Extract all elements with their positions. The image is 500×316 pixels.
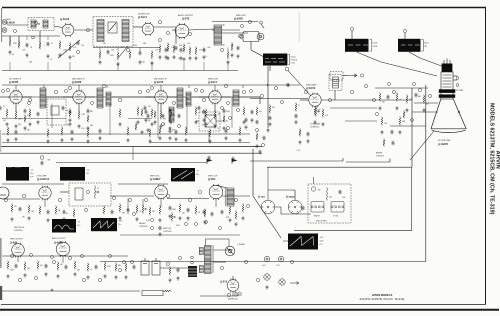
wire T1 to V2 bbox=[54, 26, 63, 28]
svg-text:15K: 15K bbox=[72, 56, 76, 58]
ground G35 bbox=[144, 118, 147, 122]
callout ring 48 bbox=[82, 278, 85, 281]
tube V9 video amp bbox=[309, 93, 321, 108]
stage 4 plate wire bbox=[221, 96, 231, 98]
diagonal B1 to video amp bbox=[288, 71, 311, 97]
wire HV lead to CRT bbox=[425, 85, 427, 262]
capacitor C4 bbox=[107, 50, 110, 55]
resistor R36 bbox=[137, 107, 139, 116]
callout ring 46 bbox=[52, 260, 55, 263]
capacitor C36 bbox=[37, 112, 40, 117]
scope waveform W3 bbox=[171, 168, 195, 181]
svg-text:1M: 1M bbox=[148, 120, 151, 122]
AC arrow bbox=[290, 282, 299, 285]
svg-text:.005: .005 bbox=[31, 211, 34, 213]
svg-text:Ⓐ 6S4: Ⓐ 6S4 bbox=[208, 177, 216, 181]
svg-text:3.9K: 3.9K bbox=[29, 61, 33, 63]
ground G56 bbox=[178, 216, 181, 220]
resistor R8 bbox=[129, 51, 131, 60]
sound IF transformer T2 box bbox=[93, 17, 133, 47]
svg-text:VERT LIN: VERT LIN bbox=[163, 228, 172, 230]
wire det area bbox=[216, 120, 228, 122]
capacitor C43 bbox=[392, 141, 395, 146]
svg-text:1K: 1K bbox=[30, 47, 33, 49]
resistor R46 bbox=[403, 111, 405, 119]
IF can Z2 bbox=[97, 88, 103, 108]
vert lin pot R67 wiper arrow bbox=[173, 216, 175, 218]
capacitor C80 bbox=[99, 129, 102, 134]
svg-text:Ⓐ 12AU7A: Ⓐ 12AU7A bbox=[37, 177, 49, 181]
tube V16 audio out bbox=[56, 241, 70, 257]
stage 3 plate wire bbox=[167, 96, 177, 98]
ground G3 bbox=[46, 54, 49, 58]
terminal ring N3 bbox=[77, 51, 80, 54]
stage 4 resistor Rc bbox=[223, 115, 225, 123]
filter capacitor FC2 bbox=[152, 258, 160, 275]
tube 6CB6 stage 1 bbox=[10, 90, 22, 105]
capacitor C82 bbox=[225, 129, 228, 134]
capacitor C32 bbox=[269, 116, 272, 121]
ground G52 bbox=[62, 217, 65, 221]
height pot R66 body bbox=[142, 205, 144, 214]
resistor R75 bbox=[87, 263, 89, 272]
capacitor C7 bbox=[203, 48, 206, 53]
resistor R91 bbox=[189, 47, 191, 56]
stage 2 resistor Ra bbox=[69, 109, 71, 118]
row4 link wire bbox=[17, 256, 19, 262]
T5 side line R bbox=[212, 245, 214, 273]
row3 top bus bbox=[2, 183, 64, 185]
svg-text:10K: 10K bbox=[182, 212, 186, 214]
svg-text:.01: .01 bbox=[90, 269, 92, 271]
tube 6AU6 stage 3 bbox=[155, 90, 167, 105]
width box bbox=[308, 184, 351, 223]
interlock plug P1 bbox=[264, 274, 270, 280]
wire speaker down bbox=[250, 42, 252, 51]
callout ring 18 bbox=[202, 98, 205, 101]
ring N16 bbox=[411, 119, 414, 122]
stub r1low-1 bbox=[9, 62, 11, 71]
peaking coil box bbox=[329, 75, 342, 91]
ground G13 bbox=[202, 55, 205, 59]
ground G74 bbox=[73, 272, 76, 276]
scope waveform W1 bbox=[6, 167, 29, 181]
CRT pin ring 2 bbox=[456, 84, 459, 87]
svg-text:Ⓐ 6T8: Ⓐ 6T8 bbox=[182, 16, 190, 20]
svg-text:1K: 1K bbox=[217, 128, 220, 130]
capacitor C78 bbox=[15, 130, 18, 135]
callout ring 34 bbox=[84, 208, 87, 211]
B2 top tick bbox=[351, 31, 353, 39]
resistor R58 bbox=[195, 206, 197, 215]
tube V11 vert osc bbox=[155, 185, 168, 200]
resistor R93 bbox=[154, 111, 156, 119]
capacitor C95 bbox=[307, 132, 310, 137]
stage 1 grid wire bbox=[0, 96, 10, 98]
ground G39c bbox=[68, 118, 71, 122]
CRT faceplate bbox=[431, 129, 466, 133]
video amp grid wire bbox=[300, 99, 309, 101]
wire plate link 4 bbox=[239, 96, 260, 98]
B3 top tick bbox=[404, 33, 406, 39]
ring N56 bbox=[221, 107, 224, 110]
resistor R68 bbox=[204, 209, 206, 218]
stub r1low-3 bbox=[69, 62, 71, 71]
ground G96 bbox=[158, 55, 161, 59]
svg-text:Ⓐ150MA: Ⓐ150MA bbox=[237, 242, 245, 246]
wire to V4 grid bbox=[172, 29, 175, 31]
tube V15 vert out bbox=[12, 243, 25, 258]
capacitor C75 bbox=[221, 210, 224, 215]
CRT yoke band 2 bbox=[439, 94, 455, 97]
CRT funnel bbox=[431, 99, 466, 129]
phono jack J2 bbox=[278, 256, 284, 262]
ground G51 bbox=[27, 216, 30, 220]
wire plate link 3 bbox=[192, 96, 209, 98]
AGC box bbox=[47, 99, 66, 125]
ground G107 bbox=[172, 55, 175, 59]
stage 1 capacitor Cb bbox=[0, 106, 2, 111]
svg-text:35>: 35> bbox=[86, 172, 89, 175]
ground G78 bbox=[265, 285, 268, 289]
capacitor C1 bbox=[26, 43, 29, 48]
wire T5 secondary bbox=[214, 261, 227, 263]
stage 1 pin ring a bbox=[2, 90, 5, 93]
ground G41 bbox=[395, 106, 398, 110]
svg-text:100: 100 bbox=[40, 265, 43, 267]
wire rect drop bbox=[232, 276, 234, 280]
speaker LS1 bbox=[240, 32, 264, 42]
antenna terminal X1 bbox=[2, 20, 7, 25]
wire row3 bus b bbox=[110, 195, 154, 197]
wire B+ bus bbox=[100, 261, 426, 263]
callout ring 54 bbox=[220, 266, 223, 269]
wire V3 to audio bbox=[154, 26, 176, 28]
wire video out bbox=[321, 99, 412, 101]
resistor R40 bbox=[379, 93, 381, 102]
IF can Z4 bbox=[233, 90, 239, 106]
tube V2 sound IF amp bbox=[62, 23, 74, 37]
callout ring 15 bbox=[138, 90, 141, 93]
resistor R92 bbox=[231, 43, 233, 52]
wire row4 bottom bbox=[200, 295, 238, 297]
ground G108 bbox=[179, 56, 182, 60]
callout ring 52 bbox=[166, 262, 169, 265]
ground G33 bbox=[268, 122, 271, 126]
stage 2 pin ring a bbox=[65, 90, 68, 93]
svg-text:Ⓐ 6AL5: Ⓐ 6AL5 bbox=[138, 15, 148, 19]
drop wire m4 bbox=[109, 104, 111, 136]
wire V4 plate to T3 bbox=[189, 29, 214, 30]
ground G105 bbox=[174, 137, 177, 141]
svg-text:Ⓐ 12BH7: Ⓐ 12BH7 bbox=[150, 177, 161, 181]
callout ring 55 bbox=[244, 260, 247, 263]
drop wire r1-5 bbox=[99, 48, 101, 52]
wire horiz network bbox=[275, 207, 311, 214]
callout ring 39 bbox=[188, 198, 191, 201]
wire bus A bbox=[2, 35, 60, 37]
tube V4 audio output bbox=[175, 23, 189, 39]
svg-text:.01: .01 bbox=[121, 47, 123, 49]
terminal ring N13 bbox=[388, 83, 391, 86]
wire vert feed 1 bbox=[252, 149, 254, 196]
capacitor C88 bbox=[178, 114, 181, 119]
svg-text:Ⓐ 6BJ6: Ⓐ 6BJ6 bbox=[6, 21, 15, 25]
svg-text:47: 47 bbox=[51, 43, 53, 45]
T1 primary coil bbox=[31, 20, 36, 28]
svg-text:6213TM, 6215CB, CM (Ch. TE-319: 6213TM, 6215CB, CM (Ch. TE-319) bbox=[360, 297, 405, 301]
stage can feed 2 bbox=[106, 85, 108, 88]
stage 2 cathode drop bbox=[78, 103, 80, 112]
callout ring 40 bbox=[198, 190, 201, 193]
ground G45 bbox=[398, 130, 401, 134]
wire plate link 1 bbox=[46, 96, 73, 98]
ground G102 bbox=[153, 120, 156, 124]
ground G59 bbox=[72, 220, 75, 224]
callout ring 37 bbox=[144, 198, 147, 201]
wire yoke feed bbox=[375, 87, 428, 89]
resistor R85 bbox=[127, 127, 129, 136]
stage feed 1 bbox=[15, 85, 17, 91]
ground G34 bbox=[136, 120, 139, 124]
resistor R51 bbox=[11, 204, 13, 213]
callout ring 32 bbox=[22, 194, 25, 197]
capacitor C76 bbox=[133, 265, 136, 270]
ring in hold box bbox=[87, 191, 90, 194]
callout ring 42 bbox=[246, 204, 249, 207]
resistor R39d bbox=[243, 107, 245, 116]
resistor R76 bbox=[104, 262, 106, 271]
stage 2 pin ring b bbox=[91, 102, 94, 105]
svg-text:.047: .047 bbox=[426, 103, 429, 105]
wire yoke to CRT bbox=[357, 52, 438, 76]
ground G62 bbox=[186, 216, 189, 220]
stage 3 ground Gb bbox=[159, 124, 162, 128]
svg-text:FOCUS: FOCUS bbox=[291, 60, 298, 62]
svg-text:HV: HV bbox=[318, 190, 321, 192]
wire row3 low bus bbox=[120, 234, 240, 236]
svg-text:Ⓐ 25: Ⓐ 25 bbox=[296, 149, 300, 152]
callout ring 16 bbox=[150, 86, 153, 89]
drop wire r1-3 bbox=[47, 37, 49, 41]
width coil L8 bbox=[311, 202, 324, 213]
callout ring 2 bbox=[86, 28, 89, 31]
wire rule drop a bbox=[132, 147, 134, 154]
stage 3 pin ring b bbox=[173, 102, 176, 105]
ring B2 top bbox=[350, 27, 353, 30]
ring N54 bbox=[162, 123, 165, 126]
svg-text:2.2M: 2.2M bbox=[107, 266, 111, 268]
svg-text:120: 120 bbox=[14, 206, 17, 208]
svg-text:470K: 470K bbox=[172, 209, 177, 211]
svg-text:500K: 500K bbox=[176, 225, 181, 227]
wire drop A1 bbox=[9, 36, 11, 40]
svg-text:C-07: C-07 bbox=[276, 265, 280, 267]
svg-text:.047: .047 bbox=[66, 124, 69, 126]
ring N31 bbox=[51, 256, 54, 259]
stage 1 ground Gc bbox=[23, 126, 26, 130]
callout ring 13 bbox=[102, 84, 105, 87]
resistor R71 bbox=[24, 262, 26, 271]
bus row1 low bbox=[2, 70, 238, 72]
svg-text:2.2M: 2.2M bbox=[133, 45, 137, 47]
svg-text:Ⓐ7: Ⓐ7 bbox=[196, 169, 199, 173]
stage 2 resistor Rc bbox=[87, 115, 89, 123]
callout ring 44 bbox=[18, 278, 21, 281]
svg-text:52-53: 52-53 bbox=[291, 57, 296, 59]
wire B1 drop long bbox=[267, 66, 269, 128]
stage feed 3 bbox=[160, 85, 162, 91]
callout ring 51 bbox=[130, 260, 133, 263]
ring N61 bbox=[191, 256, 194, 259]
ground G111 bbox=[255, 144, 258, 148]
ring N20 bbox=[151, 219, 154, 222]
capacitor C52 bbox=[232, 157, 235, 162]
svg-text:AUDIO OUTPUT: AUDIO OUTPUT bbox=[52, 237, 66, 240]
ground G37 bbox=[202, 118, 205, 122]
stage 4 ground Ga bbox=[204, 122, 207, 126]
row3 top bus b bbox=[118, 183, 168, 185]
svg-text:VERT OUTPUT: VERT OUTPUT bbox=[10, 239, 24, 241]
svg-text:PICTURE TUBE: PICTURE TUBE bbox=[438, 140, 451, 142]
callout ring 47 bbox=[68, 256, 71, 259]
svg-text:3.9K: 3.9K bbox=[122, 212, 126, 214]
callout ring 1 bbox=[34, 21, 37, 24]
drop wire m3 bbox=[231, 97, 233, 128]
tube V10b half at edge bbox=[0, 187, 9, 199]
resistor R9 bbox=[151, 51, 153, 60]
svg-text:.1: .1 bbox=[245, 208, 246, 210]
callout ring 21 bbox=[260, 94, 263, 97]
svg-text:55>: 55> bbox=[118, 223, 121, 226]
stage 1 pin ring b bbox=[28, 102, 31, 105]
capacitor C90 bbox=[245, 118, 248, 123]
svg-text:Ⓐ 5Y3: Ⓐ 5Y3 bbox=[220, 280, 228, 284]
callout ring 50 bbox=[118, 268, 121, 271]
ground G79 bbox=[124, 275, 127, 279]
resistor R47 bbox=[383, 139, 385, 147]
ground G4 bbox=[58, 53, 61, 57]
ground G104 bbox=[158, 136, 161, 140]
ground G39b bbox=[118, 122, 121, 126]
T1 secondary coil bbox=[43, 20, 48, 28]
stage 2 grid wire bbox=[63, 96, 73, 98]
svg-text:Ⓐ 6AV6: Ⓐ 6AV6 bbox=[234, 16, 244, 20]
svg-text:H LIN: H LIN bbox=[334, 216, 339, 218]
callout ring 14 bbox=[118, 98, 121, 101]
ground G54 bbox=[135, 217, 138, 221]
svg-text:6W: 6W bbox=[48, 160, 51, 162]
scan edge smudge bbox=[0, 238, 2, 268]
wire grid 1 bbox=[414, 102, 438, 104]
svg-text:6.8K: 6.8K bbox=[179, 45, 183, 47]
resistor R62 bbox=[73, 209, 75, 218]
mid plate bus long bbox=[8, 96, 260, 98]
resistor R4 bbox=[59, 41, 61, 50]
stage 4 resistor Rb bbox=[214, 111, 216, 120]
stage 2 resistor Rb bbox=[78, 111, 80, 120]
capacitor C81 bbox=[169, 129, 172, 134]
capacitor C77 bbox=[177, 268, 180, 273]
terminal ring N10 bbox=[256, 129, 259, 132]
resistor R84 bbox=[87, 129, 89, 138]
audio output transformer T3 bbox=[214, 25, 222, 45]
scope waveform W4 bbox=[52, 219, 76, 233]
wire T2 to V3 bbox=[133, 26, 142, 28]
svg-text:59-60: 59-60 bbox=[424, 43, 429, 45]
callout ring 5 bbox=[188, 32, 191, 35]
selenium rectifier SR1 bbox=[188, 266, 197, 277]
wire speaker to fuse block bbox=[251, 50, 264, 57]
resistor R64 bbox=[159, 206, 161, 215]
section divider upper rule bbox=[0, 146, 262, 148]
ground G39e bbox=[250, 118, 253, 122]
svg-text:470K: 470K bbox=[13, 43, 18, 45]
ground G94 bbox=[224, 136, 227, 140]
tube V14 hor out socket bbox=[288, 200, 302, 214]
stage can feed 4 bbox=[242, 85, 244, 88]
ring N57 bbox=[229, 117, 232, 120]
svg-text:CONTROL: CONTROL bbox=[139, 226, 148, 228]
resistor R63 bbox=[103, 206, 105, 215]
ring N62 bbox=[191, 261, 194, 264]
vertical output transformer T4 bbox=[227, 188, 234, 206]
IF can Z3 bbox=[177, 88, 183, 108]
capacitor C93 bbox=[147, 114, 150, 119]
ground G103 bbox=[169, 120, 172, 124]
L5 bracket bbox=[288, 55, 290, 65]
resistor R73 bbox=[57, 262, 59, 271]
stage 3 cathode drop bbox=[160, 103, 162, 112]
arrow connector symbol bbox=[347, 74, 357, 77]
svg-text:CONTROL: CONTROL bbox=[376, 156, 384, 158]
svg-text:4.7K: 4.7K bbox=[325, 115, 329, 117]
callout ring 9 bbox=[6, 88, 9, 91]
wire hv box top bbox=[313, 177, 315, 184]
ground G44 bbox=[380, 130, 383, 134]
resistor R80 bbox=[163, 290, 172, 292]
ground G100 bbox=[236, 54, 239, 58]
resistor R30 bbox=[295, 103, 297, 112]
svg-text:.047: .047 bbox=[329, 196, 332, 198]
capacitor C66 bbox=[302, 206, 305, 211]
ground G55 bbox=[168, 214, 171, 218]
det box lead down bbox=[208, 131, 210, 142]
svg-text:8.2K: 8.2K bbox=[226, 217, 230, 219]
resistor R13 bbox=[227, 51, 229, 60]
capacitor C60 bbox=[19, 207, 22, 212]
terminal ring N14 bbox=[413, 83, 416, 86]
drop wire r1-8 bbox=[167, 48, 169, 52]
resistor R38 bbox=[29, 109, 31, 118]
stage 4 cathode drop bbox=[214, 103, 216, 112]
callout ring 27 bbox=[372, 98, 375, 101]
capacitor C85 bbox=[211, 212, 214, 217]
svg-text:ION TRAP: ION TRAP bbox=[455, 89, 464, 92]
T4 bracket left bbox=[224, 188, 226, 206]
ground G110 bbox=[146, 128, 149, 132]
callout ring 20 bbox=[242, 90, 245, 93]
svg-text:MODELS 6213TM, 6215CB, CM (Ch.: MODELS 6213TM, 6215CB, CM (Ch. TE-319) bbox=[489, 103, 495, 215]
W1 top speckle bbox=[7, 167, 21, 169]
resistor R90 bbox=[159, 45, 161, 54]
capacitor C69 bbox=[187, 208, 190, 213]
svg-text:60>: 60> bbox=[30, 172, 33, 175]
ground G99 bbox=[230, 53, 233, 57]
resistor R3 bbox=[39, 42, 41, 50]
capacitor C70 bbox=[15, 264, 18, 269]
resistor R41 bbox=[396, 93, 398, 102]
